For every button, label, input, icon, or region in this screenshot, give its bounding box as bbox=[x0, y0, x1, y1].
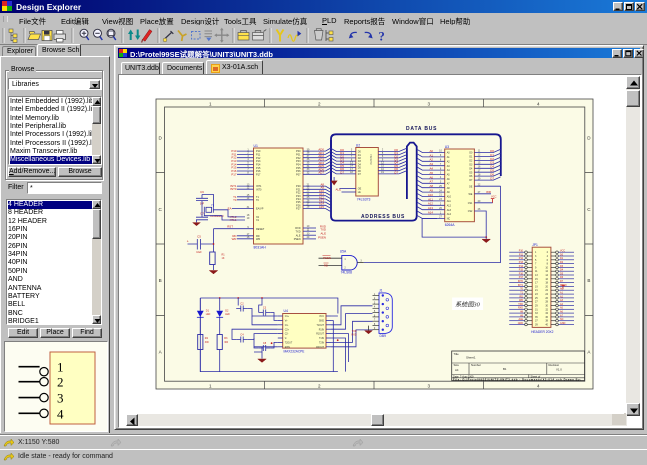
svg-text:A11: A11 bbox=[428, 197, 433, 201]
svg-text:WR: WR bbox=[256, 238, 260, 241]
svg-text:TXD: TXD bbox=[518, 303, 523, 306]
svg-text:B: B bbox=[159, 278, 162, 283]
svg-text:VCC: VCC bbox=[491, 195, 497, 199]
svg-text:P17: P17 bbox=[256, 173, 261, 176]
svg-text:PSEN: PSEN bbox=[294, 238, 301, 241]
svg-text:Size: Size bbox=[454, 363, 460, 367]
svg-text:74LS373: 74LS373 bbox=[357, 198, 371, 202]
svg-text:B1: B1 bbox=[503, 367, 507, 371]
svg-text:T2IN: T2IN bbox=[319, 343, 324, 345]
svg-text:P16: P16 bbox=[519, 272, 524, 275]
svg-text:B: B bbox=[587, 278, 590, 283]
svg-text:A12: A12 bbox=[447, 204, 452, 207]
svg-text:C2+: C2+ bbox=[285, 329, 290, 331]
svg-text:AD7: AD7 bbox=[318, 171, 324, 175]
svg-text:U3: U3 bbox=[445, 145, 449, 149]
svg-text:WR: WR bbox=[232, 237, 237, 241]
svg-text:3: 3 bbox=[428, 101, 431, 106]
svg-text:PSEN: PSEN bbox=[318, 235, 326, 239]
svg-text:CS2: CS2 bbox=[468, 210, 473, 213]
svg-text:A8: A8 bbox=[429, 184, 433, 188]
svg-text:D7: D7 bbox=[340, 170, 344, 174]
svg-text:DB9: DB9 bbox=[380, 334, 387, 338]
svg-text:V-: V- bbox=[285, 338, 287, 340]
svg-text:P13: P13 bbox=[519, 261, 524, 264]
svg-text:A14: A14 bbox=[447, 213, 452, 216]
svg-text:系统图30: 系统图30 bbox=[455, 301, 481, 309]
svg-text:+: + bbox=[187, 239, 189, 243]
svg-text:WR: WR bbox=[486, 190, 491, 194]
svg-text:LED: LED bbox=[206, 314, 211, 316]
svg-text:DATA BUS: DATA BUS bbox=[406, 126, 437, 132]
svg-text:A0: A0 bbox=[429, 149, 433, 153]
svg-text:T2OUT: T2OUT bbox=[285, 343, 293, 345]
svg-text:R2OUT: R2OUT bbox=[316, 347, 324, 349]
svg-text:A5: A5 bbox=[429, 171, 433, 175]
svg-text:MAX232ACPE: MAX232ACPE bbox=[284, 349, 305, 353]
svg-text:8031AH: 8031AH bbox=[254, 246, 267, 250]
svg-text:3: 3 bbox=[57, 391, 64, 406]
svg-text:1: 1 bbox=[209, 383, 212, 388]
svg-text:RST: RST bbox=[227, 225, 233, 229]
svg-text:GND: GND bbox=[518, 322, 524, 325]
svg-text:Revision: Revision bbox=[549, 363, 560, 367]
svg-text:D7: D7 bbox=[490, 177, 494, 181]
svg-text:A9: A9 bbox=[429, 189, 433, 193]
svg-text:P12: P12 bbox=[519, 257, 524, 260]
svg-text:P27: P27 bbox=[296, 208, 301, 211]
svg-text:RD: RD bbox=[520, 295, 524, 298]
svg-text:EA/VP: EA/VP bbox=[256, 208, 264, 211]
svg-text:2: 2 bbox=[318, 383, 321, 388]
svg-text:NC: NC bbox=[560, 318, 564, 321]
svg-text:RESET: RESET bbox=[256, 228, 265, 231]
svg-text:RXD: RXD bbox=[351, 333, 356, 336]
svg-text:A10: A10 bbox=[447, 196, 452, 199]
svg-text:File: D:\Protel99SE\UNIT3\UNI: File: D:\Protel99SE\UNIT3\UNIT3.ddb - Do… bbox=[453, 378, 581, 382]
svg-text:3: 3 bbox=[428, 383, 431, 388]
svg-text:A12: A12 bbox=[428, 202, 434, 206]
svg-text:1K: 1K bbox=[222, 257, 225, 260]
svg-text:R2IN: R2IN bbox=[285, 347, 291, 349]
svg-text:PSEN: PSEN bbox=[323, 256, 331, 260]
svg-text:U4: U4 bbox=[284, 309, 288, 313]
svg-text:2: 2 bbox=[57, 375, 64, 390]
svg-text:VCC: VCC bbox=[560, 250, 565, 253]
svg-text:A2: A2 bbox=[429, 158, 433, 162]
svg-text:U2: U2 bbox=[356, 143, 360, 147]
svg-text:4: 4 bbox=[537, 383, 540, 388]
svg-text:A3: A3 bbox=[429, 162, 433, 166]
svg-text:74LS373: 74LS373 bbox=[369, 154, 373, 165]
svg-text:CS1: CS1 bbox=[468, 202, 473, 205]
svg-text:Number: Number bbox=[471, 363, 481, 367]
svg-text:Q7: Q7 bbox=[394, 170, 398, 174]
svg-text:A4: A4 bbox=[455, 368, 459, 372]
svg-text:A7: A7 bbox=[429, 180, 433, 184]
svg-text:A10: A10 bbox=[428, 193, 434, 197]
svg-text:P15: P15 bbox=[519, 269, 524, 272]
svg-text:INT0: INT0 bbox=[256, 188, 262, 191]
svg-text:C5: C5 bbox=[197, 235, 201, 239]
svg-text:J1: J1 bbox=[379, 289, 383, 293]
svg-text:U5A: U5A bbox=[340, 249, 347, 253]
svg-text:T1IN: T1IN bbox=[319, 338, 324, 340]
svg-text:INT1: INT1 bbox=[518, 284, 524, 287]
svg-text:6264A: 6264A bbox=[445, 223, 456, 227]
svg-text:ALE: ALE bbox=[296, 234, 301, 237]
svg-text:TXD: TXD bbox=[296, 230, 301, 233]
svg-text:GND: GND bbox=[560, 322, 566, 325]
svg-text:Sheet of: Sheet of bbox=[531, 374, 541, 378]
svg-text:A1: A1 bbox=[429, 153, 433, 157]
svg-text:V1.0: V1.0 bbox=[556, 368, 562, 372]
svg-text:A13: A13 bbox=[428, 206, 434, 210]
svg-text:?: ? bbox=[379, 30, 385, 44]
svg-text:WE: WE bbox=[469, 193, 473, 196]
svg-text:A14: A14 bbox=[428, 211, 434, 215]
svg-text:10uF: 10uF bbox=[196, 251, 202, 254]
svg-text:1: 1 bbox=[57, 360, 64, 375]
svg-text:NC: NC bbox=[447, 218, 451, 221]
svg-text:VCC: VCC bbox=[319, 316, 324, 318]
svg-text:C1-: C1- bbox=[285, 325, 289, 327]
svg-text:C1+: C1+ bbox=[285, 316, 290, 318]
svg-text:A6: A6 bbox=[429, 175, 433, 179]
svg-text:LED: LED bbox=[225, 314, 230, 316]
svg-text:T1OUT: T1OUT bbox=[316, 325, 324, 327]
svg-text:P17: P17 bbox=[519, 276, 524, 279]
svg-text:WR: WR bbox=[519, 299, 523, 302]
svg-text:2: 2 bbox=[318, 101, 321, 106]
svg-text:LE: LE bbox=[358, 191, 361, 194]
svg-text:74LS08: 74LS08 bbox=[341, 271, 353, 275]
svg-text:P14: P14 bbox=[519, 265, 524, 268]
svg-text:C6: C6 bbox=[200, 190, 204, 194]
svg-text:C2-: C2- bbox=[285, 334, 289, 336]
svg-text:4: 4 bbox=[57, 406, 64, 421]
svg-text:P11: P11 bbox=[519, 253, 524, 256]
svg-text:TXD: TXD bbox=[352, 330, 357, 333]
svg-text:A15: A15 bbox=[319, 205, 325, 209]
svg-text:JP1: JP1 bbox=[532, 243, 538, 247]
svg-text:P17: P17 bbox=[231, 172, 237, 176]
svg-text:ALE: ALE bbox=[518, 318, 523, 321]
svg-text:Date: 7-Aug-2009: Date: 7-Aug-2009 bbox=[453, 374, 474, 378]
svg-text:U1: U1 bbox=[254, 144, 258, 148]
svg-text:A4: A4 bbox=[429, 167, 433, 171]
svg-text:P10: P10 bbox=[519, 250, 524, 253]
svg-text:OE: OE bbox=[469, 185, 473, 188]
svg-text:A11: A11 bbox=[447, 200, 452, 203]
svg-text:GND: GND bbox=[319, 321, 324, 323]
svg-text:HEADER 20X2: HEADER 20X2 bbox=[531, 330, 554, 334]
svg-text:INT0: INT0 bbox=[230, 187, 237, 191]
svg-text:RD: RD bbox=[324, 264, 328, 268]
svg-text:Sheet1: Sheet1 bbox=[466, 356, 476, 360]
svg-text:R1IN: R1IN bbox=[319, 329, 325, 331]
svg-text:RXD: RXD bbox=[518, 307, 523, 310]
svg-text:R1OUT: R1OUT bbox=[316, 334, 324, 336]
svg-text:4: 4 bbox=[537, 101, 540, 106]
svg-text:Title: Title bbox=[454, 352, 460, 356]
svg-text:P07: P07 bbox=[296, 173, 301, 176]
svg-text:INT0: INT0 bbox=[518, 280, 524, 283]
svg-text:T0: T0 bbox=[233, 198, 237, 202]
svg-text:1: 1 bbox=[209, 101, 212, 106]
svg-text:ADDRESS BUS: ADDRESS BUS bbox=[361, 214, 405, 220]
svg-text:A13: A13 bbox=[447, 209, 452, 212]
